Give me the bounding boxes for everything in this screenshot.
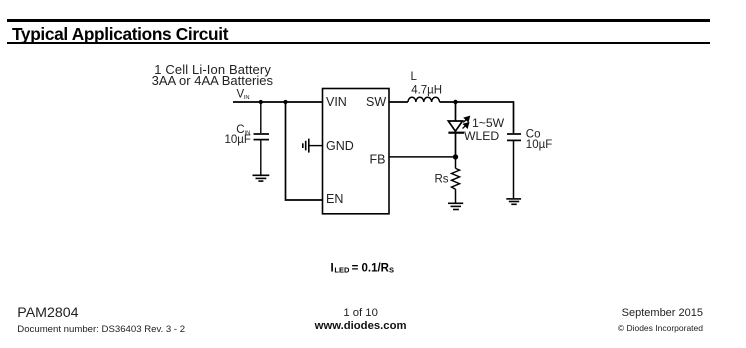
footer document number — [17, 324, 185, 335]
battery source label line 1 — [154, 62, 271, 77]
svg-text:Rs: Rs — [435, 174, 449, 186]
svg-text:10µF: 10µF — [225, 134, 251, 146]
svg-text:GND: GND — [326, 139, 354, 153]
svg-text:4.7µH: 4.7µH — [411, 84, 442, 96]
wire: EN branch — [286, 102, 323, 200]
ground (under Cin) — [253, 175, 270, 181]
wire: LED cathode to FB node — [455, 134, 457, 157]
battery source label line 2 — [152, 73, 273, 88]
junction: FB / Rs node — [453, 154, 458, 159]
wire: Co to ground — [513, 141, 515, 198]
wire: Cin to ground — [260, 140, 262, 174]
resistor Rs — [452, 168, 460, 189]
formula ILED = 0.1/Rs — [331, 262, 395, 274]
svg-text:VIN: VIN — [326, 95, 347, 109]
wire: SW to inductor — [389, 101, 408, 103]
junction: SW node / LED branch — [453, 100, 457, 104]
ground (under Co) — [506, 199, 521, 204]
footer website — [315, 320, 407, 332]
capacitor Cin value label — [225, 124, 251, 146]
wire: node to Rs — [455, 157, 457, 168]
wire: Cin branch — [260, 102, 262, 133]
svg-text:S: S — [389, 265, 394, 274]
LED light emission arrows — [463, 117, 470, 129]
ground (GND pin, sideways) — [303, 139, 309, 153]
footer part number PAM2804 — [17, 305, 78, 321]
inductor L1 value label — [411, 71, 443, 96]
wire: VIN input rail — [233, 101, 323, 103]
svg-text:I: I — [331, 262, 334, 274]
node Vin label — [237, 89, 250, 102]
svg-text:IN: IN — [244, 95, 250, 101]
wire: LED anode — [455, 102, 457, 121]
svg-text:FB: FB — [370, 152, 386, 166]
svg-text:10µF: 10µF — [526, 139, 552, 151]
svg-text:EN: EN — [326, 192, 343, 206]
svg-text:WLED: WLED — [464, 129, 499, 143]
footer copyright — [618, 323, 703, 333]
wire: FB pin — [389, 156, 456, 158]
footer page number — [343, 307, 378, 319]
wire: Rs to ground — [455, 189, 457, 203]
footer date — [622, 307, 703, 319]
LED D1 (WLED) — [448, 121, 464, 133]
capacitor Co — [507, 134, 521, 140]
title bottom rule — [7, 42, 710, 45]
op-amp / IC U1 PAM2804 body — [323, 89, 390, 214]
capacitor Co value label — [526, 129, 552, 151]
junction: Vin / EN — [283, 100, 287, 104]
svg-text:1~5W: 1~5W — [472, 116, 505, 130]
top rule — [7, 19, 710, 22]
inductor L1 — [408, 97, 440, 102]
svg-text:LED: LED — [334, 265, 350, 274]
capacitor C_IN — [254, 134, 270, 140]
title: Typical Applications Circuit — [12, 24, 228, 45]
svg-text:= 0.1/R: = 0.1/R — [352, 262, 390, 274]
wire: inductor to output node — [440, 101, 514, 103]
wire: output node down to Co — [513, 101, 515, 133]
wire: GND pin stub — [309, 145, 323, 147]
ground (under Rs) — [448, 203, 463, 209]
svg-text:L: L — [411, 71, 418, 83]
LED D1 value labels — [464, 116, 505, 143]
svg-text:SW: SW — [366, 95, 386, 109]
junction: Vin / Cin — [259, 100, 263, 104]
